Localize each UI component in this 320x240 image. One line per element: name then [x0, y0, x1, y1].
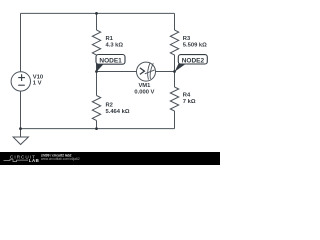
wire top horizontal: [21, 12, 175, 14]
junction dot bottom-left: [19, 127, 22, 130]
voltmeter needle arcs: [148, 62, 151, 79]
voltmeter VM1: [137, 62, 156, 81]
wire bottom horizontal: [21, 128, 175, 130]
wire R2 bottom lead: [96, 121, 98, 129]
junction node NODE1 dot: [95, 70, 98, 73]
wire R4 top lead: [174, 72, 176, 88]
svg-text:R2: R2: [106, 103, 113, 109]
svg-text:R1: R1: [106, 36, 114, 42]
svg-text:0.000 V: 0.000 V: [134, 89, 154, 95]
resistor R4: [170, 87, 178, 111]
wire mid branch lower lead: [96, 72, 98, 96]
wire right branch top lead: [174, 13, 176, 30]
logo waveform: [4, 159, 29, 161]
flag NODE1 tail: [96, 64, 103, 72]
voltmeter arrow glyph: [140, 68, 145, 75]
footer bar: [0, 152, 220, 165]
resistor R3: [170, 30, 178, 55]
flag NODE2 tail: [175, 63, 186, 71]
V10 plus sign: [18, 74, 25, 85]
wire voltmeter left: [97, 71, 137, 73]
voltage source V10: [11, 72, 30, 91]
svg-text:5.464 kΩ: 5.464 kΩ: [106, 109, 130, 115]
svg-text:VM1: VM1: [138, 83, 151, 89]
svg-text:R4: R4: [183, 93, 191, 99]
junction dot top mid: [95, 12, 98, 15]
wire left vertical lower: [20, 91, 22, 128]
svg-text:5.509 kΩ: 5.509 kΩ: [183, 42, 207, 48]
svg-text:NODE1: NODE1: [99, 57, 122, 64]
flag NODE2 box: [178, 55, 207, 64]
wire left vertical upper: [20, 13, 22, 71]
svg-text:4.3 kΩ: 4.3 kΩ: [106, 42, 124, 48]
wire R1 bottom lead: [96, 55, 98, 72]
flag NODE1 box: [96, 55, 125, 65]
V10 minus sign: [18, 84, 25, 86]
ground symbol triangle: [13, 137, 28, 145]
resistor R1: [92, 30, 100, 55]
wire voltmeter right: [156, 71, 175, 73]
ground stem: [20, 129, 22, 137]
junction dot bottom mid: [95, 127, 98, 130]
wire mid branch top lead: [96, 13, 98, 30]
svg-text:www.circuitlab.com/c6ja62: www.circuitlab.com/c6ja62: [41, 157, 80, 161]
wire R3 bottom lead: [174, 55, 176, 72]
svg-text:7 kΩ: 7 kΩ: [183, 99, 196, 105]
resistor R2: [92, 96, 100, 121]
svg-text:NODE2: NODE2: [182, 57, 205, 64]
svg-text:R3: R3: [183, 36, 191, 42]
svg-text:LAB: LAB: [29, 158, 40, 163]
junction node NODE2 dot: [173, 70, 176, 73]
wire R4 bottom lead: [174, 111, 176, 129]
svg-text:1 V: 1 V: [33, 80, 42, 86]
